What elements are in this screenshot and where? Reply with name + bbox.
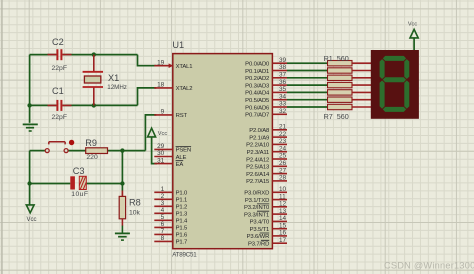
pin 10 P3.0/RXD stub [272, 191, 287, 193]
capacitor C3 (electrolytic) [70, 176, 86, 189]
svg-text:12: 12 [279, 201, 287, 208]
svg-text:29: 29 [157, 143, 165, 150]
7-segment display body [371, 50, 419, 119]
pin 11 P3.1/TXD stub [272, 199, 287, 201]
svg-text:PSEN: PSEN [176, 148, 191, 154]
svg-text:R9: R9 [85, 138, 97, 148]
svg-text:19: 19 [157, 59, 165, 66]
pin 39 P0.0/AD0 stub [272, 62, 287, 64]
wire P0.4 to R5 [287, 91, 328, 93]
svg-text:P2.2/A10: P2.2/A10 [246, 143, 270, 149]
resistor R5 [328, 90, 353, 95]
svg-text:P1.4: P1.4 [176, 219, 188, 225]
7-segment digit 8 [380, 56, 410, 112]
node junction R9/RST [120, 148, 124, 152]
pin 14 P3.4/T0 stub [272, 220, 287, 222]
svg-text:P0.4/AD4: P0.4/AD4 [245, 91, 270, 97]
pin name overlines [176, 147, 270, 241]
pin 37 P0.2/AD2 stub [272, 77, 287, 79]
svg-text:P0.6/AD6: P0.6/AD6 [245, 105, 270, 111]
svg-text:5: 5 [161, 214, 165, 221]
svg-text:R7 560: R7 560 [324, 112, 349, 121]
svg-text:P2.4/A12: P2.4/A12 [246, 157, 269, 163]
svg-text:P3.6/WR: P3.6/WR [247, 234, 270, 240]
svg-text:1: 1 [161, 186, 165, 193]
svg-text:P1.5: P1.5 [176, 226, 188, 232]
svg-text:P0.0/AD0: P0.0/AD0 [245, 62, 270, 68]
svg-text:C2: C2 [52, 37, 64, 47]
svg-text:32: 32 [279, 108, 287, 115]
svg-text:P2.0/A8: P2.0/A8 [249, 128, 270, 134]
svg-text:P2.1/A9: P2.1/A9 [249, 135, 269, 141]
wire R4 to display [352, 84, 371, 86]
svg-text:8: 8 [161, 235, 165, 242]
svg-text:35: 35 [279, 86, 287, 93]
pin 16 P3.6/WR stub [272, 235, 287, 237]
svg-text:26: 26 [279, 160, 287, 167]
power Vcc (EA pin, pointing up) [148, 128, 156, 137]
pin 2 P1.1 stub [154, 198, 173, 200]
wire reset top: rail to switch [30, 150, 45, 152]
pin 18 XTAL2 stub [154, 87, 173, 89]
svg-text:33: 33 [279, 101, 287, 108]
pin 9 RST stub [154, 114, 173, 116]
pin XTAL1 input arrow [169, 63, 174, 68]
crystal X1 [83, 55, 103, 106]
resistor R4 [328, 82, 353, 87]
svg-text:2: 2 [161, 193, 165, 200]
wire R2 to display [352, 70, 371, 72]
svg-text:P0.5/AD5: P0.5/AD5 [245, 98, 270, 104]
svg-text:18: 18 [157, 82, 165, 89]
pin 30 ALE stub [154, 156, 173, 158]
svg-text:P3.3/INT1: P3.3/INT1 [244, 212, 269, 218]
pin 6 P1.5 stub [154, 226, 173, 228]
svg-text:R1 560: R1 560 [324, 54, 349, 63]
svg-text:24: 24 [279, 145, 287, 152]
wire XTAL1 net: vertical + into pin [138, 55, 157, 66]
svg-text:25: 25 [279, 153, 287, 160]
svg-text:C1: C1 [52, 86, 64, 96]
svg-text:34: 34 [279, 93, 287, 100]
pin 38 P0.1/AD1 stub [272, 70, 287, 72]
pin 25 P2.4/A12 stub [272, 158, 287, 160]
svg-text:AT89C51: AT89C51 [172, 252, 197, 259]
svg-text:EA: EA [176, 162, 184, 168]
wire P0.1 to R2 [287, 70, 328, 72]
pin 28 P2.7/A15 stub [272, 180, 287, 182]
svg-text:P0.3/AD3: P0.3/AD3 [245, 83, 270, 89]
node junction C2/crystal [92, 52, 96, 56]
svg-text:X1: X1 [108, 73, 119, 83]
svg-text:P0.7/AD7: P0.7/AD7 [245, 113, 269, 119]
wire R8 top lead [121, 191, 123, 197]
svg-text:P1.7: P1.7 [176, 240, 188, 246]
capacitor C2 [48, 49, 72, 60]
svg-text:P2.3/A11: P2.3/A11 [247, 150, 270, 156]
svg-text:P0.1/AD1: P0.1/AD1 [245, 69, 269, 75]
wire C3 row [30, 183, 123, 185]
svg-text:11: 11 [279, 193, 286, 200]
svg-text:37: 37 [279, 72, 287, 79]
resistor R9 [86, 148, 108, 154]
pin 27 P2.6/A14 stub [272, 173, 287, 175]
ground (below R8) [115, 225, 130, 240]
pin 23 P2.2/A10 stub [272, 143, 287, 145]
svg-text:16: 16 [279, 230, 287, 237]
wire P0.3 to R4 [287, 84, 328, 86]
svg-text:30: 30 [157, 150, 165, 157]
svg-text:ALE: ALE [176, 155, 187, 161]
pin 36 P0.3/AD3 stub [272, 84, 287, 86]
svg-text:P3.4/T0: P3.4/T0 [250, 220, 270, 226]
svg-text:Vcc: Vcc [27, 217, 37, 223]
svg-text:6: 6 [161, 221, 165, 228]
wire P0.2 to R3 [287, 77, 328, 79]
switch push-button [45, 140, 74, 153]
wire EA Vcc vertical [152, 137, 157, 164]
svg-text:31: 31 [157, 157, 165, 164]
wire R5 to display [352, 91, 371, 93]
pin 35 P0.4/AD4 stub [272, 91, 287, 93]
pin 7 P1.6 stub [154, 233, 173, 235]
power Vcc (display, pointing up) [410, 29, 418, 38]
pin 15 P3.5/T1 stub [272, 228, 287, 230]
pin 29 PSEN stub [154, 148, 173, 150]
pin 24 P2.3/A11 stub [272, 151, 287, 153]
svg-text:P2.7/A15: P2.7/A15 [246, 179, 270, 185]
svg-text:CSDN @Winner1300: CSDN @Winner1300 [384, 261, 474, 271]
pin 22 P2.1/A9 stub [272, 136, 287, 138]
pin 5 P1.4 stub [154, 219, 173, 221]
svg-text:14: 14 [279, 215, 287, 222]
wire reset rail: Vcc vertical [29, 151, 31, 206]
wire XTAL1 net: C2 line [30, 54, 138, 56]
svg-text:P1.3: P1.3 [176, 212, 188, 218]
node junction C3 right [120, 181, 124, 185]
wire R1 to display [352, 62, 371, 64]
pin 33 P0.6/AD6 stub [272, 106, 287, 108]
capacitor C1 [48, 100, 72, 111]
pin 31 EA stub [154, 163, 173, 165]
pin 13 P3.3/INT1 stub [272, 213, 287, 215]
svg-text:P3.0/RXD: P3.0/RXD [244, 191, 269, 197]
wire R3 to display [352, 77, 371, 79]
ground (crystal caps) [23, 124, 38, 131]
wire switch to R9 [68, 150, 86, 152]
pin 19 XTAL1 stub [154, 65, 173, 67]
wire P0.5 to R6 [287, 99, 328, 101]
svg-text:22: 22 [279, 131, 287, 138]
svg-text:21: 21 [279, 124, 287, 131]
svg-text:Vcc: Vcc [158, 131, 168, 137]
pin 3 P1.2 stub [154, 205, 173, 207]
resistor R8 [119, 196, 125, 218]
resistor R7 [328, 104, 353, 109]
pin 34 P0.5/AD5 stub [272, 99, 287, 101]
node junction C3 left rail [27, 181, 31, 185]
svg-text:28: 28 [279, 175, 287, 182]
svg-text:36: 36 [279, 79, 287, 86]
pin 1 P1.0 stub [154, 191, 173, 193]
svg-text:P1.2: P1.2 [176, 205, 188, 211]
svg-text:220: 220 [86, 154, 98, 161]
pin 21 P2.0/A8 stub [272, 129, 287, 131]
svg-text:23: 23 [279, 138, 287, 145]
wire XTAL2 net: C1 line [30, 104, 138, 106]
node junction C1/crystal [92, 103, 96, 107]
wire R6 to display [352, 99, 371, 101]
wire R9 to RST corner [107, 150, 145, 152]
svg-text:P3.2/INT0: P3.2/INT0 [244, 205, 270, 211]
resistor R2 [328, 68, 353, 73]
svg-text:Vcc: Vcc [408, 21, 418, 27]
pin 12 P3.2/INT0 stub [272, 206, 287, 208]
svg-text:RST: RST [176, 113, 188, 119]
svg-text:7: 7 [161, 228, 165, 235]
svg-text:27: 27 [279, 167, 287, 174]
svg-text:22pF: 22pF [52, 114, 68, 121]
pin 8 P1.7 stub [154, 240, 173, 242]
svg-text:15: 15 [279, 222, 287, 229]
chip U1 AT89C51 body [173, 54, 273, 249]
wire P0.6 to R7 [287, 106, 328, 108]
svg-text:22pF: 22pF [52, 65, 68, 72]
resistor R1 [328, 61, 353, 66]
svg-text:P1.1: P1.1 [176, 198, 188, 204]
svg-text:P3.5/T1: P3.5/T1 [250, 227, 270, 233]
wire R7 to display [352, 106, 371, 108]
svg-text:12MHz: 12MHz [107, 84, 127, 91]
svg-text:XTAL1: XTAL1 [176, 64, 193, 70]
resistor R3 [328, 75, 353, 80]
svg-text:P1.0: P1.0 [176, 191, 188, 197]
svg-text:10k: 10k [129, 209, 141, 216]
svg-text:R8: R8 [129, 198, 141, 208]
svg-text:17: 17 [279, 237, 287, 244]
svg-text:C3: C3 [73, 166, 85, 176]
pin 4 P1.3 stub [154, 212, 173, 214]
svg-text:P3.1/TXD: P3.1/TXD [245, 198, 269, 204]
svg-text:4: 4 [161, 207, 165, 214]
svg-text:P3.7/RD: P3.7/RD [248, 241, 269, 247]
pin 17 P3.7/RD stub [272, 242, 287, 244]
svg-text:9: 9 [161, 109, 165, 116]
wire P0.0 to R1 [287, 62, 328, 64]
svg-text:3: 3 [161, 200, 165, 207]
svg-text:10: 10 [279, 186, 287, 193]
svg-text:10uF: 10uF [71, 191, 88, 198]
pin 26 P2.5/A13 stub [272, 165, 287, 167]
wire XTAL2 net: vertical + into pin [138, 88, 157, 106]
power Vcc (reset rail, pointing down) [26, 205, 34, 213]
wire left vertical to ground [29, 55, 31, 123]
wire R9 branch down to C3/R8 [121, 151, 123, 191]
svg-text:P1.6: P1.6 [176, 233, 188, 239]
node junction C1/left rail [27, 103, 31, 107]
wire display Vcc drop [413, 37, 415, 50]
svg-text:P2.6/A14: P2.6/A14 [246, 172, 270, 178]
svg-text:13: 13 [279, 208, 287, 215]
svg-text:P0.2/AD2: P0.2/AD2 [245, 76, 269, 82]
svg-text:XTAL2: XTAL2 [176, 86, 193, 92]
svg-text:P2.5/A13: P2.5/A13 [246, 165, 270, 171]
wire RST vertical and into pin [145, 115, 156, 151]
svg-text:39: 39 [279, 57, 287, 64]
svg-text:U1: U1 [172, 40, 184, 50]
pin 32 P0.7/AD7 stub [272, 113, 287, 115]
resistor R6 [328, 97, 353, 102]
svg-text:38: 38 [279, 64, 287, 71]
